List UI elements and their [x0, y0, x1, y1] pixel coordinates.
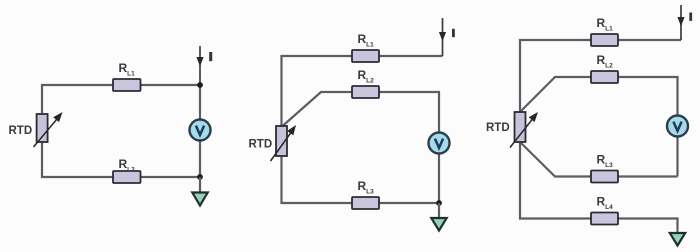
- resistor RL2: [113, 171, 141, 183]
- label I: [209, 52, 212, 61]
- RTD sensor (variable resistor): [34, 112, 63, 147]
- resistor RL4: [591, 213, 618, 225]
- resistor RL1: [113, 79, 141, 91]
- wire bottom (RL3 branch): [282, 156, 440, 203]
- node (junction): [436, 200, 442, 206]
- node (bottom junction): [197, 174, 203, 180]
- voltmeter V: [429, 133, 450, 154]
- current arrow I: [439, 18, 446, 56]
- RTD sensor (variable resistor): [271, 125, 297, 161]
- node (top junction): [197, 82, 203, 88]
- voltmeter V: [667, 116, 688, 137]
- ground: [192, 177, 207, 206]
- wire middle (RL2 branch to voltmeter): [282, 92, 439, 203]
- svg-text:RTD: RTD: [486, 122, 510, 134]
- ground: [431, 203, 446, 231]
- wire top (RL1 branch): [520, 40, 681, 112]
- resistor RL2: [352, 86, 379, 98]
- resistor RL1: [352, 50, 379, 62]
- svg-text:RTD: RTD: [9, 125, 33, 137]
- current arrow I: [677, 5, 684, 40]
- wire bottom (RL4 branch): [520, 142, 678, 233]
- svg-text:RTD: RTD: [249, 139, 273, 151]
- current arrow I: [196, 46, 203, 85]
- wire top (RL1 branch): [282, 56, 443, 126]
- ground: [670, 233, 685, 246]
- label I: [689, 13, 692, 21]
- resistor RL2: [591, 71, 618, 83]
- wire RL3 branch from voltmeter: [520, 142, 678, 177]
- label I: [452, 29, 455, 37]
- voltmeter V: [190, 120, 211, 141]
- resistor RL3: [352, 197, 379, 209]
- RTD sensor (variable resistor): [510, 112, 538, 148]
- wire loop (top, left, bottom): [42, 85, 200, 177]
- resistor RL3: [591, 171, 618, 183]
- resistor RL1: [591, 34, 618, 46]
- wire right vertical through voltmeter: [199, 85, 201, 177]
- wire RL2 branch to voltmeter: [520, 77, 678, 177]
